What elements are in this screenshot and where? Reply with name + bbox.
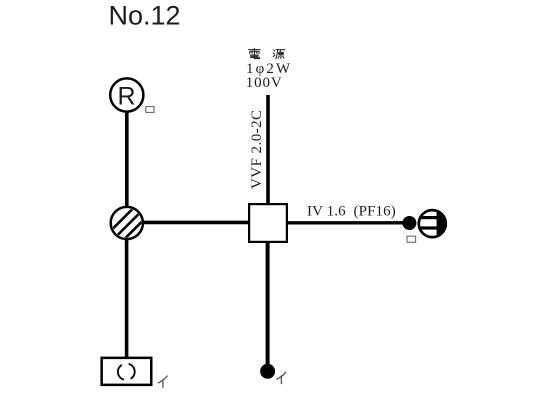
svg-text:100V: 100V bbox=[246, 75, 283, 91]
svg-text:No.12: No.12 bbox=[109, 1, 181, 31]
svg-text:VVF 2.0-2C: VVF 2.0-2C bbox=[249, 109, 265, 189]
svg-text:IV 1.6 (PF16): IV 1.6 (PF16) bbox=[307, 204, 396, 220]
svg-text:R: R bbox=[117, 83, 135, 111]
